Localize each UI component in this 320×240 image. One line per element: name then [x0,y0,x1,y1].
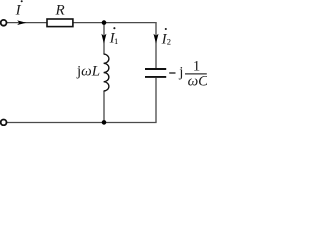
svg-text:1: 1 [193,59,201,75]
svg-text:2: 2 [167,37,171,47]
svg-text:R: R [55,3,65,19]
svg-text:ωC: ωC [188,73,207,89]
svg-text:I: I [15,3,22,19]
svg-text:1: 1 [114,36,118,46]
svg-text:jωL: jωL [76,64,100,80]
svg-text:j: j [178,65,183,81]
